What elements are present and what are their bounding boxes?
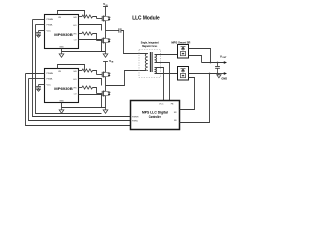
wire VOUT rail (202, 62, 225, 64)
wire U1 GND (61, 49, 63, 52)
transformer T1 secondary winding S2 (155, 68, 157, 74)
wire U2 LO (79, 87, 83, 89)
wire U2 VSS to gnd bus (79, 95, 102, 108)
wire Q4 source to bus (105, 104, 107, 108)
wire PWMH2 (26, 73, 45, 75)
svg-text:HO: HO (73, 25, 77, 27)
wire SR1 out B to VOUT rail (189, 56, 202, 63)
svg-text:MPS LLC Digital: MPS LLC Digital (142, 110, 168, 114)
svg-text:PWMH: PWMH (47, 19, 54, 21)
wire PWML1 (36, 24, 45, 26)
VIN supply upper (103, 7, 108, 13)
svg-text:MP6930B: MP6930B (54, 87, 73, 91)
wire SW2 to transformer primary bottom (106, 71, 147, 86)
wire GND rail end (218, 73, 225, 75)
ground upper bridge (103, 52, 108, 58)
svg-text:LO: LO (74, 93, 77, 95)
wire U1 HS to SW1 (79, 25, 102, 31)
svg-text:GND: GND (59, 46, 64, 48)
svg-text:Magnetic Cores: Magnetic Cores (142, 44, 157, 48)
svg-text:VCC: VCC (159, 103, 164, 105)
wire R4 to Q4 gate (93, 88, 97, 94)
wire S1 tap to controller (155, 63, 170, 101)
wire Q2 source to bus (105, 49, 107, 52)
svg-text:GND: GND (59, 100, 64, 102)
ground lower bridge (103, 108, 108, 114)
svg-text:PWML: PWML (47, 79, 54, 81)
svg-text:PWML: PWML (47, 25, 54, 27)
svg-text:LLC Module: LLC Module (132, 15, 160, 21)
wire SR1 out A to VOUT rail (189, 49, 211, 63)
transistor Q4 low-side lower (97, 86, 111, 105)
transistor Q3 high-side lower (97, 67, 111, 86)
VOUT arrow (224, 61, 227, 64)
VIN supply lower (103, 62, 108, 67)
svg-text:MP6930B: MP6930B (54, 33, 73, 37)
wire R2 to Q2 gate (93, 34, 97, 41)
gate driver U1 MP6930B (45, 15, 79, 49)
transformer T1 dashed enclosure (139, 50, 161, 78)
SR module U4 (178, 67, 189, 81)
controller MPS LLC Digital Controller (131, 101, 180, 130)
transistor Q2 low-side upper (97, 31, 111, 49)
resistor R4 (82, 86, 93, 89)
wire PWMH2 rail to controller (26, 74, 131, 126)
wire U1 VCC (39, 30, 45, 32)
wire PWML1 rail (36, 25, 102, 114)
wire S2 bottom to SR2 (155, 73, 178, 75)
resistor R2 (82, 32, 93, 35)
wire U1 HO (79, 16, 83, 18)
wire U2 VCC (39, 84, 45, 86)
wire U1 VB bootstrap loop (58, 11, 85, 17)
resistor R3 (82, 69, 93, 72)
wire PWML2 rail to controller (29, 79, 131, 121)
wire C1 to transformer primary top (121, 31, 148, 54)
wire SW1 node (106, 30, 119, 32)
gate driver U2 MP6930B (45, 69, 79, 103)
transformer T1 primary winding (145, 54, 148, 71)
capacitor C1 resonant (119, 28, 121, 32)
svg-text:Single, Integrated: Single, Integrated (141, 41, 159, 45)
resistor R1 (82, 15, 93, 18)
wire PWMH1 (33, 19, 45, 21)
ground U2 (59, 108, 64, 114)
wire lower ground bus (62, 107, 106, 109)
wire PWMH1 rail to controller (33, 20, 131, 117)
capacitor C2 U1 VCC decoupling (36, 31, 41, 38)
capacitor C4 output (215, 63, 220, 74)
ground output (217, 74, 221, 78)
SR module U3 (178, 45, 189, 59)
wire U1 VSS to gnd bus (79, 40, 102, 52)
capacitor C3 U2 VCC decoupling (36, 85, 41, 92)
wire PWML2 (29, 78, 45, 80)
svg-text:VCC: VCC (47, 85, 52, 87)
transformer T1 core (150, 52, 152, 72)
svg-text:VCC: VCC (47, 31, 52, 33)
wire S1 top to SR1 (155, 54, 178, 56)
wire U2 GND (61, 103, 63, 108)
wire U1 LO (79, 33, 83, 35)
svg-text:PWMH: PWMH (132, 116, 139, 118)
wire U2 VB bootstrap loop (58, 65, 85, 71)
wire U2 HO (79, 70, 83, 72)
transformer T1 secondary winding S1 (155, 55, 157, 63)
svg-text:LO: LO (74, 39, 77, 41)
transistor Q1 high-side upper (97, 12, 111, 31)
svg-text:HO: HO (73, 79, 77, 81)
GND arrow (224, 72, 227, 75)
wire controller SR drive to U4 (180, 78, 195, 110)
wire upper ground bus (62, 51, 106, 53)
wire controller FB to GND rail (180, 74, 210, 123)
svg-text:PWML: PWML (132, 120, 139, 122)
wire U2 HS to SW2 (79, 79, 102, 86)
svg-text:Controller: Controller (149, 115, 162, 119)
svg-text:GND: GND (221, 76, 227, 80)
svg-text:PWMH: PWMH (47, 73, 54, 75)
ground U1 (59, 52, 64, 58)
wire SR2 out to GND rail (189, 73, 218, 75)
wire R3 to Q3 gate (93, 71, 97, 75)
wire R1 to Q1 gate (93, 17, 97, 19)
wire S2 tap to controller (155, 68, 164, 101)
